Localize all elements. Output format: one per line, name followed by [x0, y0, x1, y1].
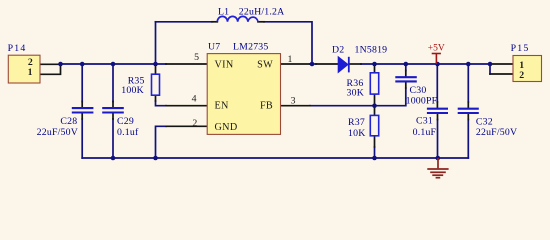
svg-text:22uF/50V: 22uF/50V	[37, 127, 78, 138]
svg-text:2: 2	[192, 118, 197, 129]
svg-text:0.1uF: 0.1uF	[413, 127, 437, 138]
svg-text:30K: 30K	[347, 87, 364, 98]
svg-text:10K: 10K	[348, 128, 365, 139]
svg-text:100K: 100K	[121, 85, 144, 96]
svg-text:2: 2	[519, 70, 524, 81]
svg-text:C30: C30	[410, 85, 427, 96]
svg-text:5: 5	[194, 52, 199, 63]
svg-text:EN: EN	[215, 101, 230, 112]
svg-text:22uF/50V: 22uF/50V	[476, 127, 517, 138]
svg-text:R37: R37	[348, 117, 365, 128]
svg-text:P14: P14	[8, 43, 27, 54]
svg-text:4: 4	[192, 94, 197, 105]
svg-text:L1: L1	[218, 7, 229, 18]
svg-text:C29: C29	[117, 116, 134, 127]
svg-text:GND: GND	[215, 122, 238, 133]
svg-text:U7: U7	[208, 42, 220, 53]
svg-text:FB: FB	[260, 101, 273, 112]
svg-text:VIN: VIN	[215, 59, 234, 70]
svg-text:0.1uf: 0.1uf	[117, 127, 139, 138]
svg-text:C32: C32	[476, 116, 493, 127]
svg-text:+5V: +5V	[428, 43, 445, 53]
svg-text:LM2735: LM2735	[233, 42, 269, 53]
svg-text:1: 1	[28, 67, 33, 78]
svg-text:P15: P15	[511, 43, 530, 54]
svg-text:1: 1	[288, 54, 293, 65]
svg-text:C28: C28	[60, 116, 77, 127]
svg-text:3: 3	[291, 96, 296, 107]
svg-text:SW: SW	[257, 59, 273, 70]
svg-text:D2: D2	[332, 44, 344, 55]
svg-text:1000PF: 1000PF	[406, 95, 438, 106]
svg-text:22uH/1.2A: 22uH/1.2A	[239, 7, 285, 18]
svg-text:C31: C31	[416, 116, 433, 127]
svg-text:1N5819: 1N5819	[355, 44, 388, 55]
